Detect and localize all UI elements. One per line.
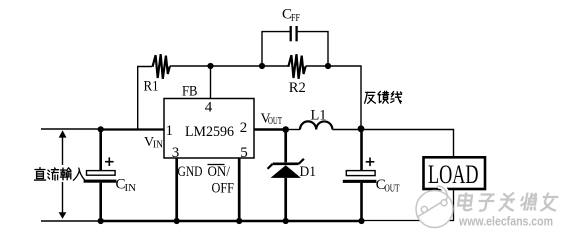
node: diode junction (282, 126, 289, 133)
char 反 (365, 92, 376, 103)
svg-text:LM2596: LM2596 (185, 124, 234, 140)
input range arrow (59, 130, 67, 219)
wire: Vout thick segment (254, 128, 286, 131)
wire: feedback line down to Vout rail (328, 66, 361, 129)
svg-text:IN: IN (153, 140, 163, 151)
watermark logo circle (416, 186, 453, 227)
label 反馈线 (feedback line) (365, 91, 402, 103)
svg-text:5: 5 (240, 145, 248, 161)
label 直流输入 (DC input) (32, 165, 87, 182)
node: COUT ground junction (358, 218, 364, 224)
node: D1 ground junction (283, 218, 289, 224)
svg-text:www.elecfans.com: www.elecfans.com (458, 214, 553, 229)
wire: pin3 to ground (175, 158, 178, 221)
svg-text:FB: FB (182, 84, 198, 100)
svg-text:4: 4 (205, 100, 213, 116)
wire: bottom thin wire to load (362, 189, 454, 221)
char 入 (73, 168, 84, 180)
node: CIN bottom junction (98, 218, 104, 224)
char 流 (48, 168, 59, 180)
wire: bottom ground rail thin left (41, 220, 101, 222)
watermark text 电子发烧友 (457, 193, 559, 212)
wire: pin5 to ground (238, 158, 241, 221)
svg-text:ON/: ON/ (208, 164, 231, 180)
svg-text:FF: FF (291, 13, 300, 24)
capacitor CIN (84, 129, 137, 221)
char 线 (391, 92, 402, 104)
label VIN (144, 135, 163, 151)
svg-text:D1: D1 (300, 164, 317, 180)
svg-text:OFF: OFF (212, 181, 235, 197)
capacitor CFF (262, 7, 328, 66)
label ON/OFF (208, 164, 235, 197)
diode D1 (268, 130, 317, 222)
node: CIN top junction (98, 126, 104, 132)
wire: top input rail to pin1 (101, 128, 164, 130)
wire: FB row from R1 node to CFF left (211, 65, 263, 67)
wire: pin4 vertical (210, 66, 212, 99)
node: FB junction (207, 63, 213, 69)
wire: top input rail left thin segment (41, 128, 101, 130)
svg-text:R2: R2 (289, 80, 306, 96)
inductor L1 (300, 108, 332, 130)
char 馈 (378, 91, 389, 103)
svg-text:L1: L1 (311, 108, 327, 124)
load box (424, 157, 486, 189)
svg-text:LOAD: LOAD (428, 160, 479, 189)
svg-text:2: 2 (240, 120, 248, 136)
svg-text:R1: R1 (144, 79, 159, 95)
wire: to inductor (286, 129, 300, 131)
svg-text:GND: GND (178, 164, 203, 180)
svg-text:1: 1 (166, 123, 174, 139)
node: pin3 ground junction (174, 218, 180, 224)
wire: bottom ground rail thick (100, 220, 362, 222)
node: CFF left junction (259, 63, 265, 69)
label VOUT (261, 112, 283, 128)
capacitor COUT (343, 129, 400, 221)
wire: L1 to load corner (332, 130, 453, 158)
node: Cout/feedback junction (358, 125, 365, 132)
resistor R1 (138, 54, 211, 129)
svg-text:IN: IN (125, 183, 137, 194)
resistor R2 (262, 54, 328, 96)
op-amp: LM2596 IC U1 (164, 99, 254, 162)
char 直 (35, 168, 46, 181)
svg-text:OUT: OUT (385, 183, 400, 194)
char 输 (60, 168, 71, 180)
node: pin5 ground junction (236, 218, 242, 224)
node: CFF right junction (325, 63, 331, 69)
svg-text:OUT: OUT (268, 116, 282, 127)
